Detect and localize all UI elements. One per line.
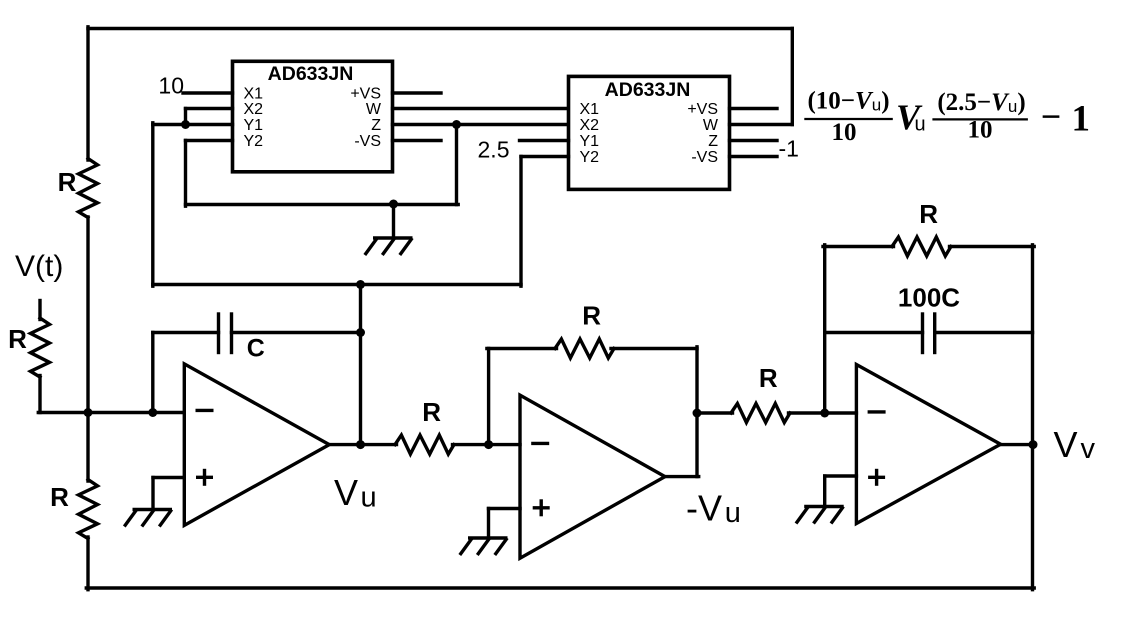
svg-text:R: R <box>582 301 601 331</box>
wire U1 Y1 row <box>153 123 233 126</box>
wire Vu bottom horizontal <box>153 283 521 286</box>
wire U4 feedback vertical left <box>487 349 490 447</box>
formula fraction 1 bar <box>804 118 893 120</box>
junction dot input node at capacitor branch <box>148 408 157 417</box>
ground symbol U3 <box>133 508 173 511</box>
junction dot U5 inverting node <box>820 409 829 418</box>
svg-text:X2: X2 <box>580 117 600 134</box>
junction dot input node at R ladder <box>84 408 93 417</box>
wire U2 Y2 down to Vu bottom wire <box>519 157 522 287</box>
svg-text:10: 10 <box>158 73 184 99</box>
U4 plus sign <box>533 506 550 509</box>
op-amp U3 triangle <box>184 364 329 525</box>
wire U5 feedback R row right <box>950 245 1035 248</box>
wire cap C branch vertical <box>151 333 154 413</box>
capacitor 100C plates <box>921 314 924 353</box>
wire bottom loop horizontal <box>86 586 1034 589</box>
svg-text:V: V <box>1054 424 1078 465</box>
svg-text:10: 10 <box>832 119 857 146</box>
wire U1 X2 stub <box>186 107 233 110</box>
svg-text:R: R <box>58 167 77 197</box>
svg-text:−: − <box>1041 97 1062 137</box>
wire left vertical (R1 to input node) <box>86 217 89 414</box>
junction dot cap C to Vu vertical <box>356 328 365 337</box>
wire U1 Y2 down <box>184 141 187 207</box>
ground symbol U4 <box>468 536 508 539</box>
wire U5 feedback R row left <box>823 245 894 248</box>
svg-text:W: W <box>366 101 382 118</box>
wire U3 output <box>329 443 396 446</box>
formula fraction 2 bar <box>932 118 1028 120</box>
svg-text:R: R <box>919 199 938 229</box>
wire left vertical (R6 to bottom loop) <box>86 537 89 590</box>
wire top-right vertical down to U2 pin W <box>791 29 794 125</box>
svg-text:V: V <box>334 472 358 513</box>
svg-text:u: u <box>915 114 926 136</box>
svg-text:u: u <box>725 497 741 529</box>
wire U2 W stub to top loop <box>730 123 793 126</box>
wire U5 noninverting input <box>825 474 857 477</box>
wire U4 ground stem <box>487 509 490 539</box>
svg-text:+VS: +VS <box>350 86 381 103</box>
wire U5 ground stem <box>823 476 826 507</box>
capacitor 100C right wire <box>935 331 1033 334</box>
wire U4 feedback vertical right <box>695 347 698 477</box>
wire R3 to U4 inverting input <box>453 443 521 446</box>
svg-text:-1: -1 <box>779 136 799 162</box>
U5 plus sign <box>868 476 885 479</box>
wire R5 from U4 feedback <box>697 411 733 414</box>
op-amp U4 triangle <box>520 395 665 558</box>
svg-text:V(t): V(t) <box>15 250 63 283</box>
svg-text:Y1: Y1 <box>580 133 600 150</box>
U4 inverting input minus sign <box>531 442 549 445</box>
wire node Vu vertical left <box>151 123 154 286</box>
svg-text:AD633JN: AD633JN <box>605 79 691 101</box>
wire U2 Y2 stub <box>521 155 569 158</box>
wire U5 output <box>1001 443 1032 446</box>
svg-text:Z: Z <box>371 117 381 134</box>
multiplier U1 body <box>233 61 393 172</box>
svg-text:-V: -V <box>686 488 722 529</box>
svg-text:X2: X2 <box>244 101 264 118</box>
wire U1 W to U2 X1 <box>393 107 569 110</box>
wire U4 output <box>665 475 699 478</box>
wire U1 X2 down to Y1 <box>184 109 187 125</box>
wire U4 noninverting input <box>489 507 521 510</box>
wire Z branch vertical <box>455 125 458 205</box>
resistor R6 lower-left <box>79 480 98 539</box>
junction dot U4 feedback to R5 <box>693 409 702 418</box>
svg-text:R: R <box>50 482 69 512</box>
svg-text:Y1: Y1 <box>244 117 264 134</box>
wire left vertical upper (top loop to R1) <box>86 27 89 160</box>
svg-text:Z: Z <box>708 133 718 150</box>
wire U1 Y2 to Z row horizontal <box>186 203 459 206</box>
wire right vertical (bottom loop up to R7 row) <box>1031 245 1034 590</box>
wire input node row (to op-amp U3 inverting input) <box>38 411 184 414</box>
svg-text:C: C <box>247 335 265 363</box>
junction dot on Z wire <box>452 120 461 129</box>
svg-text:W: W <box>703 117 719 134</box>
svg-text:R: R <box>8 324 27 354</box>
junction dot U5 output Vv <box>1029 440 1038 449</box>
wire U2 Y1 stub <box>520 139 569 142</box>
capacitor C left wire <box>153 331 219 334</box>
wire Vu vertical to op-amp U3 output <box>359 285 362 445</box>
svg-text:X1: X1 <box>580 101 600 118</box>
wire U1 Y2 stub <box>186 139 233 142</box>
resistor R3 series <box>395 435 454 454</box>
svg-text:X1: X1 <box>244 86 264 103</box>
wire U3 ground stem <box>151 478 154 510</box>
wire R5 to U5 inverting input <box>789 411 857 414</box>
wire U2 +VS stub <box>730 107 778 110</box>
wire U1 X1 stub <box>183 91 233 94</box>
capacitor C right wire <box>232 331 361 334</box>
wire U1 Z to U2 X2 <box>393 123 569 126</box>
svg-text:R: R <box>422 397 441 427</box>
wire U4 feedback row left <box>487 347 557 350</box>
svg-text:2.5: 2.5 <box>478 137 510 163</box>
wire U4 feedback row right <box>611 347 697 350</box>
wire R2 to input node <box>38 376 41 413</box>
wire U5 feedback vertical left <box>823 245 826 415</box>
junction dot U3 output <box>356 440 365 449</box>
wire U3 noninverting input <box>153 476 184 479</box>
svg-text:1: 1 <box>1072 99 1091 140</box>
svg-text:Y2: Y2 <box>244 133 264 150</box>
capacitor C plates <box>217 314 220 353</box>
wire U1 +VS stub <box>393 91 442 94</box>
junction dot U1 X2-Y1 tie <box>181 120 190 129</box>
svg-text:u: u <box>361 482 377 514</box>
svg-text:10: 10 <box>968 117 993 144</box>
svg-text:-VS: -VS <box>354 133 381 150</box>
svg-text:v: v <box>1081 433 1096 465</box>
junction dot Vu bottom wire <box>356 280 365 289</box>
resistor R7 feedback <box>892 237 951 256</box>
svg-text:R: R <box>759 363 778 393</box>
ground symbol U1 <box>373 236 413 239</box>
resistor R4 feedback <box>555 339 614 358</box>
resistor R5 series <box>731 404 790 423</box>
wire U1 -VS stub <box>393 139 442 142</box>
U5 inverting input minus sign <box>868 410 886 413</box>
wire left vertical (input node to R6) <box>86 411 89 481</box>
wire top loop horizontal <box>88 27 792 30</box>
junction dot U4 inverting node <box>484 440 493 449</box>
svg-text:+VS: +VS <box>687 101 718 118</box>
svg-text:-VS: -VS <box>691 149 718 166</box>
ground stem U1 <box>392 205 395 239</box>
junction dot ground tap <box>389 200 398 209</box>
op-amp U5 triangle <box>856 365 1000 524</box>
svg-text:Y2: Y2 <box>580 149 600 166</box>
U3 inverting input minus sign <box>196 409 214 412</box>
svg-text:100C: 100C <box>898 283 960 313</box>
multiplier U2 body <box>569 76 730 189</box>
capacitor 100C left wire <box>825 331 923 334</box>
ground symbol U5 <box>804 505 844 508</box>
U3 plus sign <box>196 476 213 479</box>
wire V(t) stub <box>38 301 41 320</box>
wire U2 -VS stub <box>730 155 778 158</box>
resistor R1 <box>79 159 98 218</box>
resistor R2 from V(t) <box>31 318 50 377</box>
svg-text:AD633JN: AD633JN <box>268 63 354 85</box>
wire U2 Z stub <box>730 139 778 142</box>
